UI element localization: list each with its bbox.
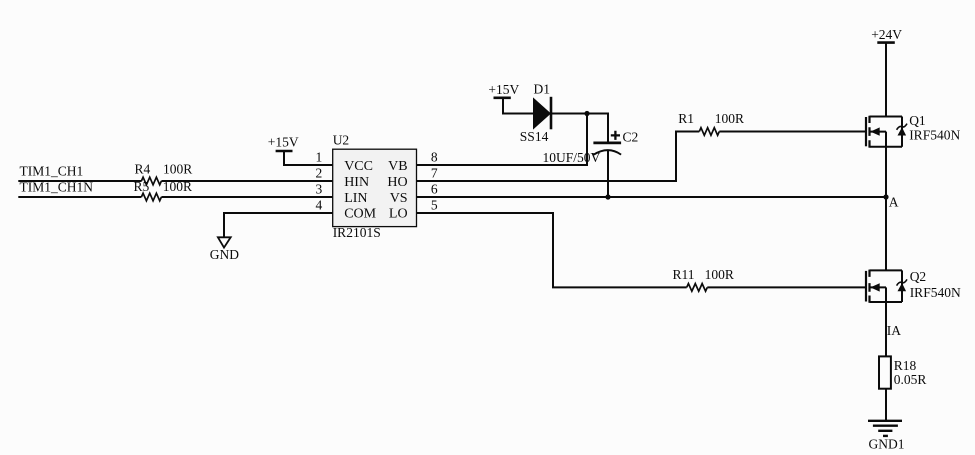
svg-text:3: 3 bbox=[316, 182, 323, 197]
power +15V (D1 anode) bbox=[488, 82, 519, 98]
svg-text:8: 8 bbox=[431, 150, 438, 165]
svg-text:7: 7 bbox=[431, 166, 438, 181]
svg-text:TIM1_CH1: TIM1_CH1 bbox=[20, 163, 84, 178]
resistor R5 bbox=[134, 179, 193, 201]
wire +15V to U2 pin 1 bbox=[284, 151, 333, 165]
capacitor C2 10UF/50V bbox=[543, 129, 639, 165]
net TIM1_CH1 bbox=[20, 163, 84, 178]
wire U2 pin 4 to GND bbox=[224, 213, 333, 237]
op-amp U2 IR2101S body bbox=[333, 132, 417, 240]
svg-text:+15V: +15V bbox=[488, 82, 519, 97]
svg-text:SS14: SS14 bbox=[520, 129, 549, 144]
svg-text:A: A bbox=[889, 195, 899, 210]
svg-text:100R: 100R bbox=[705, 267, 734, 282]
svg-text:100R: 100R bbox=[163, 179, 192, 194]
junction C2/VS bbox=[605, 194, 610, 199]
svg-text:R5: R5 bbox=[134, 179, 150, 194]
wire U2 pin 6 VS to node A bbox=[417, 196, 887, 198]
svg-text:5: 5 bbox=[431, 197, 438, 212]
svg-text:COM: COM bbox=[344, 207, 376, 222]
svg-text:VB: VB bbox=[388, 159, 407, 174]
svg-text:LO: LO bbox=[389, 207, 408, 222]
wire R4 to U2 pin 2 bbox=[161, 180, 333, 182]
net TIM1_CH1N bbox=[20, 179, 94, 194]
wire TIM1_CH1 to R4 bbox=[18, 180, 141, 182]
resistor R1 bbox=[678, 111, 744, 135]
wire U2 pin 7 HO to R1 bbox=[417, 132, 700, 182]
svg-text:VS: VS bbox=[390, 191, 408, 206]
svg-text:GND1: GND1 bbox=[869, 436, 905, 451]
wire R18 to GND1 bbox=[885, 389, 887, 421]
wire Q2 source to R18 bbox=[885, 302, 887, 356]
svg-text:1: 1 bbox=[316, 150, 323, 165]
svg-text:IR2101S: IR2101S bbox=[333, 225, 381, 240]
svg-text:6: 6 bbox=[431, 182, 438, 197]
ground GND1 bbox=[868, 421, 905, 452]
wire TIM1_CH1N to R5 bbox=[18, 196, 141, 198]
svg-text:4: 4 bbox=[316, 197, 323, 212]
svg-text:IRF540N: IRF540N bbox=[910, 285, 961, 300]
resistor R11 bbox=[673, 267, 734, 291]
svg-text:R1: R1 bbox=[678, 111, 694, 126]
svg-text:100R: 100R bbox=[715, 111, 744, 126]
svg-text:0.05R: 0.05R bbox=[894, 372, 927, 387]
svg-text:TIM1_CH1N: TIM1_CH1N bbox=[20, 179, 94, 194]
wire U2 pin 8 VB up to D1/C2 node bbox=[417, 114, 588, 166]
wire R11 to Q2 gate bbox=[707, 286, 866, 288]
wire U2 pin 5 LO to R11 bbox=[417, 213, 687, 287]
junction node D1/C2/VB bbox=[584, 111, 589, 116]
svg-text:VCC: VCC bbox=[344, 159, 373, 174]
ground GND bbox=[210, 237, 239, 262]
resistor R4 bbox=[135, 161, 193, 185]
junction node A bbox=[883, 194, 888, 199]
power +15V (U2 VCC) bbox=[268, 135, 299, 152]
svg-text:100R: 100R bbox=[163, 161, 192, 176]
wire +24V to Q1 drain bbox=[885, 43, 887, 117]
svg-text:10UF/50V: 10UF/50V bbox=[543, 150, 601, 165]
svg-text:D1: D1 bbox=[534, 81, 551, 96]
svg-text:HIN: HIN bbox=[344, 175, 369, 190]
svg-text:HO: HO bbox=[387, 175, 407, 190]
transistor Q2 IRF540N bbox=[866, 269, 961, 303]
wire +15V to D1 anode bbox=[503, 98, 533, 114]
resistor R18 0.05R bbox=[879, 356, 926, 388]
wire node A to Q2 drain bbox=[885, 197, 887, 270]
svg-text:U2: U2 bbox=[333, 132, 350, 147]
svg-text:R4: R4 bbox=[135, 161, 151, 176]
svg-text:Q1: Q1 bbox=[909, 113, 926, 128]
svg-text:+24V: +24V bbox=[871, 27, 902, 42]
wire D1 cathode to C2 top bbox=[551, 114, 608, 142]
svg-text:2: 2 bbox=[316, 166, 323, 181]
svg-text:GND: GND bbox=[210, 247, 239, 262]
svg-text:C2: C2 bbox=[623, 129, 639, 144]
svg-text:IA: IA bbox=[887, 323, 901, 338]
diode D1 SS14 bbox=[520, 81, 551, 143]
wire C2 bottom to VS line bbox=[607, 150, 609, 197]
svg-text:R11: R11 bbox=[673, 267, 695, 282]
wire R1 to Q1 gate bbox=[719, 131, 866, 133]
svg-text:+15V: +15V bbox=[268, 135, 299, 150]
svg-text:IRF540N: IRF540N bbox=[909, 128, 960, 143]
transistor Q1 IRF540N bbox=[866, 113, 960, 148]
svg-text:R18: R18 bbox=[894, 358, 917, 373]
wire Q1 source to node A bbox=[885, 147, 887, 197]
svg-text:Q2: Q2 bbox=[910, 269, 927, 284]
power +24V bbox=[871, 27, 902, 43]
wire R5 to U2 pin 3 bbox=[161, 196, 333, 198]
svg-text:LIN: LIN bbox=[344, 191, 367, 206]
